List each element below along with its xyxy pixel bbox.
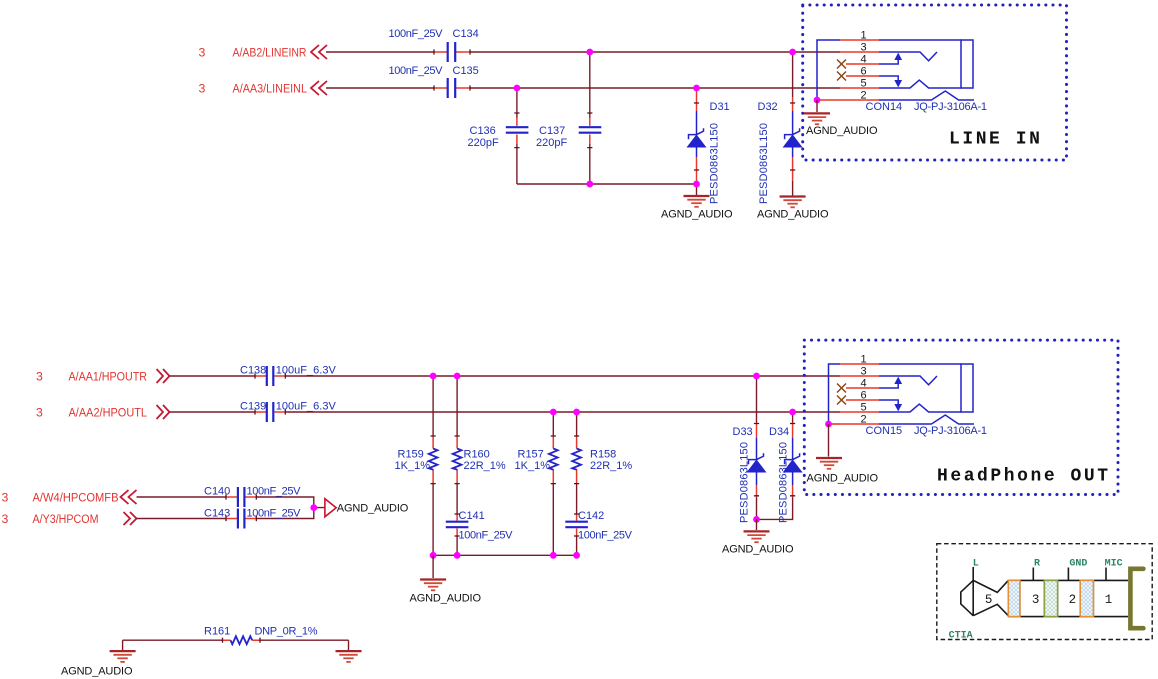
svg-text:R157: R157 <box>518 449 544 461</box>
ground below D32 <box>757 197 829 221</box>
junction dot D31/LINEINL <box>693 85 700 92</box>
node: page ref 3 for HPCOMFB <box>2 491 9 505</box>
off-page chevron HPCOMFB <box>121 490 137 504</box>
plug tip outline <box>961 567 1009 616</box>
svg-text:PESD0863L150: PESD0863L150 <box>778 442 790 523</box>
label L <box>973 558 979 569</box>
svg-text:220pF: 220pF <box>468 137 499 149</box>
connector CON14 <box>817 29 987 113</box>
capacitor C134 <box>389 28 479 62</box>
svg-text:DNP_0R_1%: DNP_0R_1% <box>255 626 318 638</box>
svg-text:1K_1%: 1K_1% <box>395 460 431 472</box>
svg-text:CTIA: CTIA <box>949 631 973 642</box>
svg-text:D32: D32 <box>758 101 778 113</box>
title LINE IN <box>949 129 1042 149</box>
svg-text:A/AA2/HPOUTL: A/AA2/HPOUTL <box>69 406 148 420</box>
net label A/AA1/HPOUTR <box>69 370 148 384</box>
svg-text:AGND_AUDIO: AGND_AUDIO <box>61 666 133 678</box>
svg-text:C138: C138 <box>240 365 266 377</box>
svg-text:CON15: CON15 <box>866 425 903 437</box>
capacitor C140 <box>204 486 301 508</box>
svg-text:3: 3 <box>2 512 9 526</box>
junction dot C137/LINEINR <box>586 49 593 56</box>
svg-text:PESD0863L150: PESD0863L150 <box>709 123 721 204</box>
svg-text:A/AA3/LINEINL: A/AA3/LINEINL <box>233 82 308 96</box>
svg-text:100nF_25V: 100nF_25V <box>389 65 444 77</box>
svg-text:1K_1%: 1K_1% <box>515 460 551 472</box>
junction dot CON15 pin2 <box>825 421 832 428</box>
node: page ref 3 for HPOUTR <box>36 370 43 384</box>
diode D34 <box>757 412 802 519</box>
junction dot D32/LINEINR <box>789 49 796 56</box>
svg-text:1: 1 <box>1105 593 1113 607</box>
svg-text:R161: R161 <box>204 626 230 638</box>
ground below D31 <box>661 184 733 221</box>
svg-text:AGND_AUDIO: AGND_AUDIO <box>806 125 878 137</box>
wire HPOUTL <box>170 411 841 413</box>
svg-text:R160: R160 <box>464 449 490 461</box>
junction dots ground bus <box>430 552 580 559</box>
svg-text:C141: C141 <box>459 510 485 522</box>
node: page ref 3 for HPOUTL <box>36 406 43 420</box>
svg-text:22R_1%: 22R_1% <box>464 460 506 472</box>
svg-text:JQ-PJ-3106A-1: JQ-PJ-3106A-1 <box>914 101 987 113</box>
svg-text:A/AA1/HPOUTR: A/AA1/HPOUTR <box>69 370 148 384</box>
label PESD0863L150 for D33 <box>739 442 751 523</box>
off-page chevron LINEINR <box>311 45 327 59</box>
junction dot CON14 pin2 <box>814 97 821 104</box>
svg-text:HeadPhone OUT: HeadPhone OUT <box>937 466 1111 486</box>
svg-text:3: 3 <box>199 82 206 96</box>
svg-text:PESD0863L150: PESD0863L150 <box>739 442 751 523</box>
label CTIA <box>949 631 973 642</box>
svg-text:3: 3 <box>2 491 9 505</box>
label PESD0863L150 for D34 <box>778 442 790 523</box>
pin number 2 <box>1069 593 1077 607</box>
capacitor C139 <box>240 401 336 423</box>
wire HPOUTR <box>170 375 841 377</box>
node: page ref 3 for HPCOM <box>2 512 9 526</box>
svg-text:AGND_AUDIO: AGND_AUDIO <box>337 503 409 515</box>
wire LINEINL <box>326 87 840 89</box>
svg-text:R: R <box>1034 558 1040 569</box>
resistor R157 <box>515 412 558 555</box>
svg-text:C137: C137 <box>539 125 565 137</box>
leader lines L R GND MIC <box>1033 568 1106 581</box>
label PESD0863L150 for D31 <box>709 123 721 204</box>
capacitor C135 <box>389 65 479 98</box>
pin end tick marks <box>223 49 796 642</box>
plug body outline <box>1008 580 1128 616</box>
wire HPCOMFB <box>137 497 314 508</box>
resistor R160 <box>453 376 506 514</box>
svg-text:A/W4/HPCOMFB: A/W4/HPCOMFB <box>33 491 119 505</box>
ground left of R161 <box>61 640 136 677</box>
svg-text:MIC: MIC <box>1105 558 1123 569</box>
dotted box HeadPhone OUT <box>804 340 1118 494</box>
svg-text:22R_1%: 22R_1% <box>590 460 632 472</box>
capacitor C142 <box>565 510 632 555</box>
capacitor C143 <box>204 508 301 529</box>
svg-text:3: 3 <box>36 370 43 384</box>
wire bottom bus of C136/C137 to D31 <box>517 183 697 185</box>
pin number 1 <box>1105 593 1113 607</box>
plug band 1 (insulator) <box>1008 580 1020 616</box>
junction dots HPOUTR <box>430 373 461 380</box>
svg-text:A/AB2/LINEINR: A/AB2/LINEINR <box>233 46 307 60</box>
off-page chevron LINEINL <box>311 81 327 95</box>
diode D31 <box>688 88 730 184</box>
svg-text:L: L <box>973 558 979 569</box>
svg-text:C134: C134 <box>453 28 479 40</box>
junction dot D33/HPOUTR <box>753 373 760 380</box>
junction dot C136/LINEINL <box>514 85 521 92</box>
svg-text:GND: GND <box>1069 558 1087 569</box>
dashed box CTIA <box>937 544 1152 640</box>
power symbol AGND_AUDIO triangle <box>325 499 409 517</box>
off-page chevron HPOUTR <box>157 369 170 383</box>
ground below D33/D34 <box>722 519 794 555</box>
resistor R158 <box>572 412 632 514</box>
svg-text:AGND_AUDIO: AGND_AUDIO <box>661 209 733 221</box>
resistor R159 <box>395 376 438 555</box>
svg-text:D31: D31 <box>710 101 730 113</box>
plug socket bracket <box>1130 569 1143 628</box>
ground below bus <box>410 555 482 604</box>
net label A/AA2/HPOUTL <box>69 406 148 420</box>
svg-text:D33: D33 <box>733 426 753 438</box>
svg-text:AGND_AUDIO: AGND_AUDIO <box>807 473 879 485</box>
junction dot D31 bottom <box>693 181 700 188</box>
junction dot D33/D34 bottom <box>753 516 760 523</box>
svg-text:3: 3 <box>1032 593 1040 607</box>
ground right of R161 <box>336 640 362 662</box>
net label A/Y3/HPCOM <box>33 512 99 526</box>
svg-text:AGND_AUDIO: AGND_AUDIO <box>757 209 829 221</box>
svg-text:3: 3 <box>36 406 43 420</box>
node: page ref 3 for LINEINL <box>199 82 206 96</box>
diode D32 <box>758 52 802 196</box>
junction dots HPOUTL <box>550 409 580 416</box>
svg-text:C139: C139 <box>240 401 266 413</box>
svg-text:AGND_AUDIO: AGND_AUDIO <box>722 544 794 556</box>
svg-text:PESD0863L150: PESD0863L150 <box>758 123 770 204</box>
wire LINEINR <box>326 51 840 53</box>
svg-text:LINE IN: LINE IN <box>949 129 1042 149</box>
junction dot HPCOM merge <box>310 504 317 511</box>
capacitor C137 <box>536 125 601 149</box>
off-page chevron HPOUTL <box>157 405 170 419</box>
capacitor C141 <box>446 510 513 555</box>
svg-text:C135: C135 <box>453 65 479 77</box>
diode D33 <box>733 376 766 519</box>
net label A/AB2/LINEINR <box>233 46 307 60</box>
svg-text:AGND_AUDIO: AGND_AUDIO <box>410 593 482 605</box>
svg-text:C136: C136 <box>470 125 496 137</box>
ground below CON14 <box>804 100 878 137</box>
svg-text:100nF_25V: 100nF_25V <box>578 530 633 542</box>
resistor R161 <box>123 626 349 645</box>
pin number 3 <box>1032 593 1040 607</box>
svg-text:JQ-PJ-3106A-1: JQ-PJ-3106A-1 <box>914 425 987 437</box>
node: page ref 3 for LINEINR <box>199 46 206 60</box>
label R <box>1034 558 1040 569</box>
junction dot D34/HPOUTL <box>789 409 796 416</box>
ground below CON15 <box>807 424 879 485</box>
svg-text:R158: R158 <box>590 449 616 461</box>
svg-text:D34: D34 <box>769 426 789 438</box>
svg-text:C142: C142 <box>578 510 604 522</box>
svg-text:R159: R159 <box>398 449 424 461</box>
wire ground bus <box>433 554 576 556</box>
junction dot C137 bottom <box>586 181 593 188</box>
svg-text:5: 5 <box>985 593 993 607</box>
wire C136 branch <box>516 88 518 184</box>
svg-text:CON14: CON14 <box>866 101 903 113</box>
svg-text:100nF_25V: 100nF_25V <box>247 508 302 520</box>
svg-text:3: 3 <box>199 46 206 60</box>
wire HPCOM <box>137 508 325 519</box>
plug band 2 (insulator) <box>1044 580 1057 616</box>
connector CON15 <box>829 353 988 437</box>
title HeadPhone OUT <box>937 466 1111 486</box>
svg-text:100nF_25V: 100nF_25V <box>459 530 514 542</box>
net label A/W4/HPCOMFB <box>33 491 119 505</box>
plug band 3 (insulator) <box>1080 580 1093 616</box>
label PESD0863L150 for D32 <box>758 123 770 204</box>
label MIC <box>1105 558 1123 569</box>
svg-text:100nF_25V: 100nF_25V <box>247 486 302 498</box>
net label A/AA3/LINEINL <box>233 82 308 96</box>
capacitor C138 <box>240 365 336 387</box>
svg-text:A/Y3/HPCOM: A/Y3/HPCOM <box>33 512 99 526</box>
svg-text:220pF: 220pF <box>536 137 567 149</box>
off-page chevron HPCOM <box>124 512 137 525</box>
capacitor C136 <box>468 125 529 149</box>
svg-text:2: 2 <box>1069 593 1077 607</box>
label GND <box>1069 558 1087 569</box>
pin number 5 <box>985 593 993 607</box>
dotted box LINE IN <box>803 5 1067 160</box>
svg-text:100nF_25V: 100nF_25V <box>389 28 444 40</box>
wire C137 branch <box>589 52 591 184</box>
